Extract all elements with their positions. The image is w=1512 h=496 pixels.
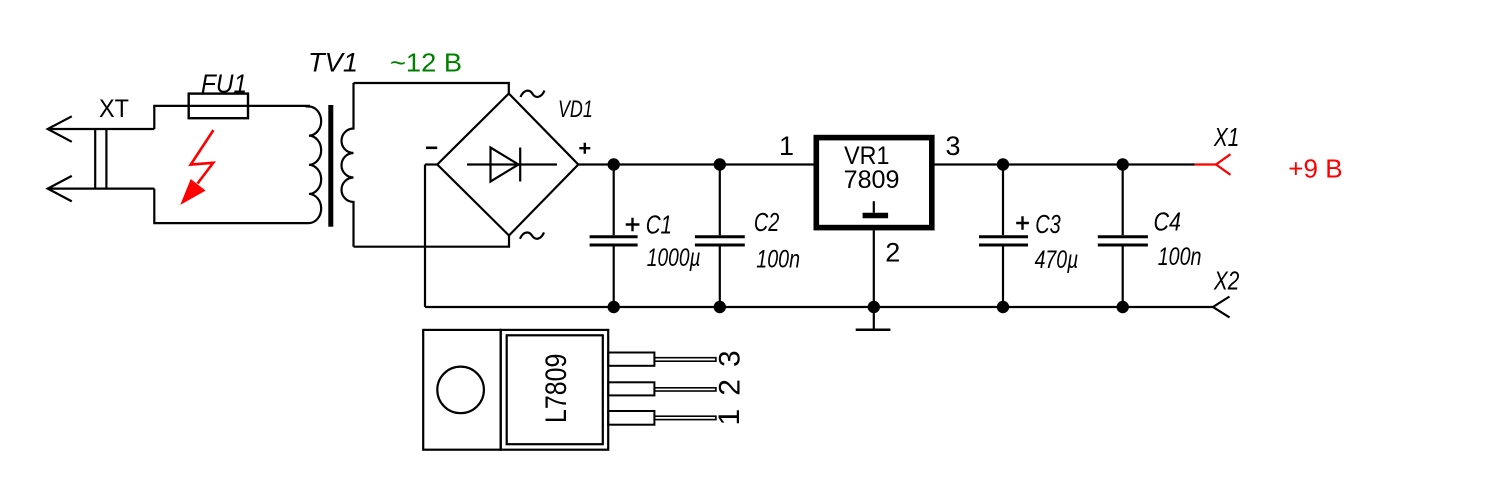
package L7809 body outer — [501, 330, 609, 450]
package pin 1 wide — [608, 411, 654, 425]
regulator VR1 tab mark bar — [863, 213, 889, 219]
capacitor C3 plus sign — [1016, 216, 1029, 229]
capacitor C2 plates — [695, 235, 745, 238]
svg-text:470µ: 470µ — [1035, 246, 1079, 274]
bridge ~ mark bottom — [520, 232, 544, 238]
package pin 3 wide — [608, 353, 654, 366]
capacitor C2 top lead — [719, 165, 721, 236]
terminal X1 red wire — [1195, 163, 1216, 165]
regulator VR1 pin2 wire — [873, 230, 875, 307]
svg-text:C1: C1 — [646, 210, 672, 240]
wire secondary top to bridge top — [354, 83, 509, 94]
svg-text:L7809: L7809 — [540, 354, 573, 423]
capacitor C1 plus sign — [626, 218, 640, 231]
svg-text:1: 1 — [713, 409, 746, 426]
bridge minus sign — [426, 147, 437, 150]
bridge diode cathode bar — [519, 148, 521, 182]
svg-text:C2: C2 — [754, 207, 780, 237]
junction dot C2 bottom — [714, 301, 726, 313]
package pin 1 thin — [654, 416, 716, 419]
svg-text:C4: C4 — [1154, 206, 1182, 236]
plug XT pin bottom wire — [48, 188, 154, 190]
svg-text:3: 3 — [713, 350, 746, 367]
package L7809 hole — [437, 367, 484, 414]
wire plug bottom to primary bottom — [154, 189, 309, 224]
svg-text:VD1: VD1 — [558, 96, 593, 123]
junction dot pin2 bottom — [868, 301, 880, 313]
lightning arrow shaft — [191, 130, 214, 183]
svg-text:XT: XT — [99, 95, 129, 123]
lightning arrowhead — [182, 180, 205, 204]
svg-text:100n: 100n — [756, 246, 800, 274]
capacitor C3 plates — [979, 235, 1028, 238]
transformer TV1 core — [328, 105, 333, 227]
wire secondary bottom to bridge bottom — [354, 236, 510, 247]
plug XT pin bottom arrowhead — [48, 176, 72, 202]
capacitor C4 top lead — [1122, 165, 1124, 236]
bottom rail — [425, 306, 1213, 308]
top rail bridge to VR1 — [578, 163, 813, 165]
svg-text:FU1: FU1 — [201, 69, 247, 99]
svg-text:1: 1 — [779, 131, 794, 161]
transformer TV1 secondary winding — [342, 83, 354, 247]
fuse FU1 body — [189, 94, 248, 119]
svg-text:X2: X2 — [1213, 265, 1240, 295]
junction dot C3 top — [997, 158, 1009, 170]
svg-text:X1: X1 — [1213, 122, 1239, 152]
svg-text:TV1: TV1 — [308, 48, 358, 78]
svg-text:100n: 100n — [1158, 243, 1202, 271]
bridge ~ mark top — [521, 91, 545, 97]
bridge rectifier VD1 diamond — [437, 94, 578, 236]
wire through fuse to transformer primary — [189, 105, 310, 107]
junction dot C2 top — [714, 158, 726, 170]
junction dot C1 top — [608, 158, 620, 170]
regulator VR1 pin3 wire — [935, 163, 1195, 165]
bridge plus sign — [579, 143, 590, 154]
svg-text:+9 В: +9 В — [1288, 154, 1342, 184]
svg-text:C3: C3 — [1035, 209, 1061, 239]
capacitor C4 bottom lead — [1122, 246, 1124, 307]
transformer TV1 primary winding — [309, 106, 321, 223]
plug XT pin top arrowhead — [48, 116, 72, 142]
junction dot C4 top — [1117, 158, 1129, 170]
junction dot C1 bottom — [608, 301, 620, 313]
svg-text:2: 2 — [713, 379, 746, 396]
svg-text:7809: 7809 — [844, 166, 900, 194]
terminal X2 fork — [1213, 297, 1230, 318]
capacitor C3 bottom lead — [1002, 246, 1004, 307]
wire plug top to fuse row — [154, 106, 188, 129]
svg-text:3: 3 — [946, 131, 961, 161]
capacitor C1 bottom lead — [613, 246, 615, 307]
package pin 2 wide — [608, 382, 654, 395]
regulator VR1 box — [816, 138, 932, 228]
junction dot C3 bottom — [997, 301, 1009, 313]
capacitor C1 top lead — [613, 165, 615, 236]
capacitor C3 top lead — [1002, 165, 1004, 236]
capacitor C2 bottom lead — [719, 246, 721, 307]
bridge diode axis — [467, 163, 557, 165]
package pin 2 thin — [654, 388, 716, 391]
terminal X1 fork — [1216, 154, 1231, 175]
bridge diode triangle — [491, 148, 519, 182]
package L7809 tab — [423, 330, 501, 450]
bridge minus stub — [425, 163, 437, 165]
plug XT double bar — [94, 129, 96, 189]
ground symbol bar — [856, 329, 891, 332]
junction dot C4 bottom — [1117, 301, 1129, 313]
capacitor C1 plates — [590, 235, 638, 238]
svg-text:2: 2 — [885, 238, 900, 268]
svg-text:1000µ: 1000µ — [647, 244, 701, 272]
regulator VR1 tab mark stub — [873, 201, 875, 213]
capacitor C4 plates — [1098, 235, 1148, 238]
package pin 3 thin — [654, 358, 716, 362]
wire bridge minus down to bottom rail — [424, 165, 426, 308]
package L7809 body inner — [507, 335, 603, 444]
ground symbol stub — [873, 307, 875, 329]
svg-text:~12 В: ~12 В — [390, 48, 462, 78]
plug XT pin top wire — [48, 128, 154, 130]
